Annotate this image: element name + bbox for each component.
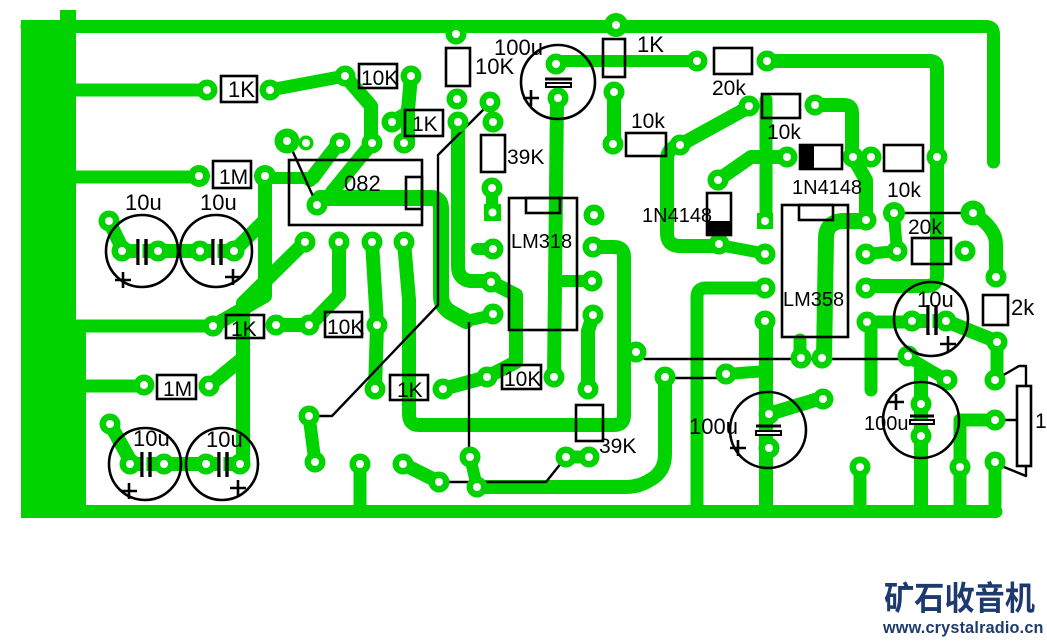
op-amp U2 LM318 [509,198,577,330]
svg-text:100u: 100u [864,413,909,435]
wire [74,326,86,505]
pad [937,370,958,391]
power rail left bar [21,20,76,518]
pad [275,129,300,154]
pad [861,147,882,168]
pad [986,267,1007,288]
resistor R2 10K [446,48,470,86]
pad [394,232,415,253]
pad [759,438,780,459]
wire [408,76,411,144]
pad [335,66,356,87]
wire [769,400,815,414]
wire [973,213,996,277]
watermark logo [885,581,1035,613]
pad [856,278,877,299]
svg-text:39K: 39K [507,146,544,169]
pad [911,426,932,447]
pad [812,348,833,369]
pad square U3 pin1 [757,213,773,229]
wire [130,457,240,471]
wire [477,377,665,487]
svg-text:10u: 10u [206,427,243,452]
wire [718,157,787,180]
svg-text:10K: 10K [361,67,398,90]
wire link [439,457,566,482]
resistor R3 1K [603,39,625,77]
wire [894,214,897,251]
capacitor C7 100u [883,382,959,458]
pad [99,211,120,232]
pad [955,241,976,262]
pad [446,24,467,45]
wire [443,377,487,389]
resistor R17 1M [157,375,196,399]
pad [433,379,454,400]
pad [197,80,218,101]
capacitor C4 10u [109,428,181,500]
wire [989,462,1002,505]
wire [309,416,315,462]
wire [122,244,234,258]
pad [709,234,730,255]
svg-text:10u: 10u [917,287,954,312]
pad [188,165,210,187]
wire [234,220,265,251]
pad [483,304,504,325]
pad [481,272,502,293]
svg-text:LM318: LM318 [511,231,572,253]
op-amp U3 LM358 [782,205,848,337]
pad [579,447,600,468]
wire [912,314,946,328]
wire [556,275,592,287]
pad [961,201,986,226]
resistor R12 1K [226,315,264,338]
wire [794,340,807,358]
wire link [309,103,490,416]
pad [467,477,488,498]
pad [813,389,834,410]
wire [276,318,309,332]
capacitor C3 100u [521,45,595,119]
resistor R18 20k [912,238,951,264]
pad [254,165,276,187]
pad [791,348,812,369]
diode D2 1N4148 [707,193,731,235]
potentiometer RP1 10k [1017,386,1031,466]
wire [556,55,697,67]
pad [655,367,676,388]
svg-text:2k: 2k [1011,295,1035,320]
pad [843,147,864,168]
diode D1 1N4148 [800,145,842,169]
pad square U2 pin1 [484,204,501,221]
pad [716,364,737,385]
pad [856,210,877,231]
pad [805,95,826,116]
pad [582,271,603,292]
wire [991,342,1004,380]
wire [375,325,377,389]
svg-text:1K: 1K [228,77,255,102]
wire [345,76,371,143]
svg-text:20k: 20k [712,77,746,100]
pad [203,316,224,337]
pad [777,147,798,168]
pad [546,54,567,75]
wire link [288,141,317,205]
pad [604,13,628,37]
svg-text:1N4148: 1N4148 [792,177,862,199]
wire [767,61,937,286]
pad [755,311,776,332]
svg-text:082: 082 [344,171,381,196]
power rail top bar [27,27,994,163]
wire [466,315,493,321]
svg-text:10u: 10u [125,190,162,215]
wire [824,221,866,358]
pad [100,414,121,435]
pad [898,346,919,367]
pad [755,278,776,299]
svg-text:10K: 10K [504,368,541,391]
pad [199,376,220,397]
pad [299,315,320,336]
pad [670,135,691,156]
resistor R15 10K [502,365,541,389]
wire [867,316,912,329]
pad [480,92,501,113]
svg-text:1K: 1K [637,32,664,57]
pad [883,202,905,224]
capacitor C8 10u [894,282,968,356]
wire [403,464,439,482]
svg-text:100u: 100u [494,35,543,60]
capacitor C6 100u [730,392,806,468]
pad [856,244,877,265]
pad [367,315,388,336]
wire [76,171,199,184]
svg-text:www.crystalradio.cn: www.crystalradio.cn [882,619,1044,637]
wire [697,288,762,505]
wire [760,100,773,218]
svg-text:1K: 1K [397,379,423,402]
pad [483,239,504,260]
wire [759,322,773,505]
svg-text:1M: 1M [163,378,192,401]
pad [460,447,481,468]
wire [266,143,340,178]
capacitor C2 10u [180,215,252,287]
pad [266,315,287,336]
resistor R14 1K [390,375,428,400]
wire [458,122,487,281]
wire link [995,419,1017,421]
wire [109,221,122,248]
resistor R13 10K [325,312,362,337]
wire [372,242,377,324]
pad [350,454,371,475]
wire [320,198,466,321]
wire link [665,377,726,379]
wire [270,76,345,90]
resistor R4 20k [714,48,752,74]
pad [985,452,1006,473]
pad [394,133,415,154]
pad [626,342,647,363]
pad [936,311,957,332]
pad [483,112,504,133]
pad [482,178,503,199]
pad [544,367,565,388]
pad [985,370,1006,391]
pad [305,452,326,473]
wire [76,320,213,333]
wire [954,467,967,505]
wire [815,105,852,152]
resistor R19 2k [983,295,1008,325]
wire [680,107,749,145]
pad [148,241,169,262]
resistor R9 1K [405,110,443,136]
wire link [636,354,908,359]
wire [110,424,130,460]
wire [310,144,338,180]
wire link [999,462,1026,476]
pad [299,136,314,151]
pad [120,454,141,475]
wire [332,143,372,192]
resistor R11 1M [213,161,251,188]
wire [470,457,477,487]
svg-text:10k: 10k [631,110,665,133]
pad [887,241,908,262]
wire [866,251,897,254]
wire [404,242,624,425]
svg-text:1N4148: 1N4148 [642,205,712,227]
svg-text:10k: 10k [767,121,801,144]
power rail tab [60,10,76,24]
pad [902,311,923,332]
pad [857,312,878,333]
pad [393,454,414,475]
resistor R16 39K [576,405,603,441]
wire [914,368,928,505]
pad [299,406,320,427]
wire [243,242,305,464]
pad [604,82,625,103]
pad [687,51,708,72]
svg-text:10u: 10u [133,426,170,451]
wire [588,315,593,389]
pad [448,112,469,133]
resistor R6 10k [884,145,923,171]
pad [196,454,217,475]
capacitor C5 10u [186,428,258,500]
wire [390,112,407,122]
pad [757,51,778,72]
wire [607,92,621,144]
pad [260,80,281,101]
pad [224,241,245,262]
pad [295,232,316,253]
pad [365,379,386,400]
wire [946,321,993,340]
wire [854,467,867,505]
wire [487,282,516,377]
pad [230,454,251,475]
svg-text:1K: 1K [231,318,257,341]
pad [755,244,776,265]
wire [354,464,367,505]
svg-text:10K: 10K [327,316,364,339]
pad [447,89,468,110]
pad [382,112,403,133]
wire link [995,366,1026,386]
pad [759,404,780,425]
resistor R8 10K [359,64,397,88]
resistor R7 10k [626,133,666,156]
pad [584,205,605,226]
wire [486,188,498,212]
pad [548,88,569,109]
pad [985,410,1006,431]
pad [911,394,932,415]
svg-text:39K: 39K [599,435,636,458]
wire [76,380,144,393]
wire [853,157,866,220]
pad [583,237,604,258]
capacitor C1 10u [106,215,178,287]
svg-text:100u: 100u [689,414,738,439]
pad [708,170,729,191]
wire [908,357,947,380]
pad [987,332,1008,353]
svg-text:10u: 10u [200,190,237,215]
pad [154,454,175,475]
pad [556,447,577,468]
op-amp U1 082 [289,160,422,225]
wire [477,243,493,255]
svg-text:10k: 10k [887,179,921,202]
resistor R1 1K [221,76,257,102]
resistor R10 39K [481,135,505,172]
pad [927,147,948,168]
svg-text:LM358: LM358 [783,289,844,311]
pad [401,66,422,87]
svg-text:20k: 20k [908,216,942,239]
svg-text:1M: 1M [219,166,248,189]
pad [329,232,350,253]
wire [213,177,265,326]
pad [850,457,871,478]
wire [76,84,207,97]
wire link [468,322,470,456]
pad [362,133,383,154]
wire [865,322,878,390]
pad [603,134,624,155]
wire [726,371,766,374]
pad [429,472,450,493]
pad [307,195,328,216]
pad [134,375,155,396]
wire [719,245,762,253]
svg-text:10: 10 [1035,410,1047,433]
pad [477,367,498,388]
pad [190,241,211,262]
wire [209,358,243,386]
wire link [894,212,973,214]
wire [554,98,557,377]
wire [960,420,995,505]
wire [667,146,719,246]
wire [311,242,339,324]
pad [950,457,971,478]
resistor R5 10k [762,94,800,118]
wire [566,451,589,464]
pad [112,241,133,262]
ground rail bottom bar [30,505,996,518]
pad [362,232,383,253]
pad [330,133,351,154]
pad [578,379,599,400]
svg-text:1K: 1K [412,113,438,136]
pad [583,305,604,326]
pad [739,96,760,117]
